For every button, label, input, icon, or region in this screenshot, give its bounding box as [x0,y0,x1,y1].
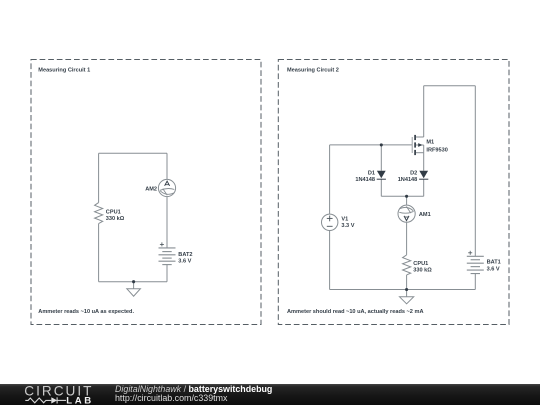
wire: ground stub circuit1 [133,282,135,289]
ammeter AM2 [158,179,175,196]
junction dot circuit1 ground tap [132,280,135,283]
svg-text:CPU1: CPU1 [106,210,121,216]
svg-text:LAB: LAB [66,395,94,405]
svg-text:AM2: AM2 [145,186,157,192]
svg-text:AM1: AM1 [419,212,431,218]
wire: AM1 top stub [406,196,408,205]
wire: ground stub circuit2 [406,290,408,297]
svg-text:D2: D2 [410,170,417,176]
ground symbol circuit1 [127,289,141,297]
svg-text:M1: M1 [426,140,434,146]
svg-text:330 kΩ: 330 kΩ [413,267,432,273]
wire: left rail V1 bottom [329,231,331,290]
wire: D1 cathode wire [380,179,382,196]
svg-text:BAT2: BAT2 [178,252,192,258]
plus sign BAT2 [160,242,164,246]
wire: circuit1 right rail mid [166,197,168,248]
battery BAT1 [467,256,484,273]
wire: M1 source to D2 [423,153,425,171]
svg-text:330 kΩ: 330 kΩ [106,216,125,222]
svg-text:3.3 V: 3.3 V [341,223,354,229]
wire: gate wire [330,144,413,146]
svg-text:BAT1: BAT1 [487,260,501,266]
logo glyph: wire+resistor+diode [25,397,66,403]
footer bar [0,384,540,405]
svg-text:3.6 V: 3.6 V [487,267,500,273]
svg-text:http://circuitlab.com/c339tmx: http://circuitlab.com/c339tmx [115,393,228,403]
resistor CPU1 (circuit 1) [95,203,103,224]
wire: CPU1 to bottom [406,275,408,290]
voltage source V1 [322,214,338,230]
svg-text:V1: V1 [341,217,348,223]
svg-text:Ammeter reads ~10 uA as expect: Ammeter reads ~10 uA as expected. [38,309,134,315]
wire: BAT1 bottom stub [474,274,476,290]
wire: circuit1 top [99,152,167,154]
junction dot AM1 tap [405,195,408,198]
plus sign BAT1 [468,251,472,255]
svg-text:1N4148: 1N4148 [355,177,375,183]
wire: circuit2 top [424,85,476,87]
enclosure box 2 (dashed) [278,60,509,325]
battery BAT2 [159,248,176,265]
svg-text:Ammeter should read ~10 uA, ac: Ammeter should read ~10 uA, actually rea… [287,309,423,315]
wire: circuit1 bottom [99,281,167,283]
wire: circuit1 right rail top [166,153,168,179]
svg-text:CPU1: CPU1 [413,261,428,267]
diode D1 [377,171,386,179]
wire: M1 drain rail [423,86,425,137]
ammeter AM1 (rotated 180) [398,205,415,222]
ground symbol circuit2 [400,297,414,304]
wire: circuit2 right rail (to BAT1) [474,86,476,257]
svg-text:Measuring Circuit 2: Measuring Circuit 2 [287,68,339,74]
wire: AM1 to CPU1 [406,222,408,255]
wire: D2 cathode wire [423,179,425,196]
transistor M1 (PMOS) [412,135,424,155]
wire: circuit2 bottom [330,289,476,291]
wire: left rail to V1 top [329,145,331,214]
wire: D1-D2 cathode bus [381,195,423,197]
junction dot gate/D1 [380,143,383,146]
wire: circuit1 left rail upper [98,153,100,202]
wire: circuit1 left rail lower [98,224,100,282]
svg-text:1N4148: 1N4148 [398,177,418,183]
junction dot circuit2 ground tap [405,288,408,291]
wire: BAT2 bottom stub [166,265,168,282]
svg-text:D1: D1 [368,170,375,176]
svg-text:IRF9530: IRF9530 [426,147,447,153]
enclosure box 1 (dashed) [31,60,261,325]
svg-text:Measuring Circuit 1: Measuring Circuit 1 [38,68,90,74]
wire: D1 anode wire [380,145,382,171]
diode D2 [419,171,428,179]
svg-text:3.6 V: 3.6 V [178,259,191,265]
resistor CPU1 (circuit 2) [403,255,411,275]
